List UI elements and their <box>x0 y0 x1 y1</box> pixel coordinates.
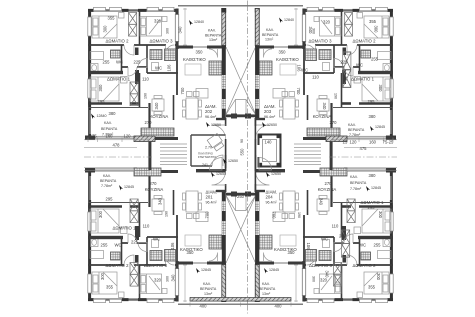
svg-text:96.4m²: 96.4m² <box>206 201 218 205</box>
svg-text:106: 106 <box>306 243 311 251</box>
svg-text:255: 255 <box>374 243 382 248</box>
section line extensions <box>246 1 248 314</box>
svg-text:ΔΩΜΑΤΙΟ 1: ΔΩΜΑΤΙΟ 1 <box>107 77 131 82</box>
svg-text:340: 340 <box>158 197 163 205</box>
svg-text:ΒΕΡΑΝΤΑ: ΒΕΡΑΝΤΑ <box>205 34 222 38</box>
svg-text:340: 340 <box>154 102 159 110</box>
svg-text:ΚΑΛ.: ΚΑΛ. <box>266 28 274 32</box>
svg-text:ΒΕΡΑΝΤΑ: ΒΕΡΑΝΤΑ <box>262 33 279 37</box>
svg-text:320: 320 <box>154 278 162 283</box>
svg-text:300: 300 <box>374 26 379 34</box>
svg-text:300: 300 <box>98 84 103 92</box>
svg-text:WC: WC <box>356 63 363 68</box>
svg-text:255: 255 <box>371 57 379 62</box>
apartment 201 bottom-left quadrant geometry (mirrored) <box>88 155 241 304</box>
svg-text:12650: 12650 <box>267 123 277 127</box>
corridor column BR <box>342 230 350 257</box>
wardrobe bedroom2 BR <box>334 263 342 287</box>
svg-text:300: 300 <box>378 211 383 219</box>
spot elevation 12650 apt202 <box>206 122 221 128</box>
svg-text:12840: 12840 <box>97 114 107 118</box>
svg-text:12650: 12650 <box>271 172 281 176</box>
bottom dimension lines <box>190 303 291 307</box>
svg-text:160: 160 <box>106 134 114 139</box>
svg-text:ΚΑΛ.: ΚΑΛ. <box>104 121 112 125</box>
svg-text:355: 355 <box>108 16 116 21</box>
svg-text:190: 190 <box>165 211 169 217</box>
svg-text:ΚΑΘΙΣΤΙΚΟ: ΚΑΘΙΣΤΙΚΟ <box>276 57 299 62</box>
svg-text:12650: 12650 <box>228 159 238 163</box>
svg-text:475: 475 <box>360 146 368 151</box>
svg-text:225: 225 <box>131 240 139 245</box>
svg-text:110: 110 <box>142 77 149 82</box>
svg-text:400: 400 <box>200 304 208 309</box>
svg-text:203: 203 <box>264 109 272 114</box>
svg-text:320: 320 <box>154 19 162 24</box>
svg-text:7.78m²: 7.78m² <box>101 184 113 188</box>
svg-text:270: 270 <box>145 120 153 125</box>
svg-text:340: 340 <box>178 26 183 34</box>
mid band stripes (side steps) left <box>160 144 187 165</box>
wardrobe bedroom1 BR <box>347 199 355 223</box>
svg-text:96.4m²: 96.4m² <box>205 115 217 119</box>
svg-text:ΔΩΜΑΤΙΟ 2: ΔΩΜΑΤΙΟ 2 <box>106 263 130 268</box>
apartment 202 top-left quadrant geometry <box>88 6 241 155</box>
svg-text:ΚΑΛ.: ΚΑΛ. <box>262 282 270 286</box>
svg-text:ΚΑΛ.: ΚΑΛ. <box>348 123 356 127</box>
svg-text:WC: WC <box>321 237 328 242</box>
svg-text:12845: 12845 <box>371 186 381 190</box>
svg-text:700: 700 <box>272 212 277 220</box>
svg-text:255: 255 <box>101 243 109 248</box>
svg-text:ΔΩΜΑΤΙΟ 3: ΔΩΜΑΤΙΟ 3 <box>309 39 333 44</box>
svg-text:ΒΕΡΑΝΤΑ: ΒΕΡΑΝΤΑ <box>101 127 118 131</box>
svg-text:ΔΩΜΑΤΙΟ 2: ΔΩΜΑΤΙΟ 2 <box>353 263 377 268</box>
mid band stripes (side steps) right <box>294 144 321 165</box>
svg-text:270: 270 <box>150 181 158 186</box>
svg-text:250: 250 <box>237 194 245 199</box>
svg-text:190: 190 <box>144 93 148 99</box>
svg-text:ΒΕΡΑΝΤΑ: ΒΕΡΑΝΤΑ <box>100 179 117 183</box>
apartment 204 bottom-right quadrant geometry (mirrored) <box>241 155 394 304</box>
svg-text:190: 190 <box>297 212 301 218</box>
wardrobe bedroom2 BL <box>130 263 138 287</box>
svg-text:110: 110 <box>332 224 339 229</box>
svg-text:270: 270 <box>330 120 338 125</box>
svg-text:ΒΕΡΑΝΤΑ: ΒΕΡΑΝΤΑ <box>259 287 276 291</box>
svg-text:12845: 12845 <box>269 268 279 272</box>
svg-text:7.78m²: 7.78m² <box>349 133 361 137</box>
svg-text:300: 300 <box>312 276 316 282</box>
svg-text:106: 106 <box>297 65 302 73</box>
svg-text:350: 350 <box>196 50 204 55</box>
svg-text:7.78m²: 7.78m² <box>350 187 362 191</box>
svg-text:204: 204 <box>266 195 274 200</box>
svg-text:12840: 12840 <box>194 20 204 24</box>
svg-text:12650: 12650 <box>216 172 226 176</box>
svg-text:106: 106 <box>167 64 172 72</box>
svg-text:WC: WC <box>116 60 123 65</box>
svg-text:ΔΩΜΑΤΙΟ 3: ΔΩΜΑΤΙΟ 3 <box>309 263 333 268</box>
svg-text:255: 255 <box>103 60 111 65</box>
svg-text:225: 225 <box>134 60 142 65</box>
svg-text:ΔΩΜΑΤΙΟ 1: ΔΩΜΑΤΙΟ 1 <box>351 77 375 82</box>
svg-text:160: 160 <box>369 140 377 145</box>
svg-text:25: 25 <box>343 140 348 145</box>
svg-text:380: 380 <box>369 114 377 119</box>
core middle: laundry, elevator, kitchen counters <box>85 128 396 176</box>
svg-text:295: 295 <box>368 99 376 104</box>
svg-text:75-25: 75-25 <box>383 140 394 145</box>
svg-text:700: 700 <box>296 88 301 96</box>
stair core lower half (mirrored) <box>222 155 259 305</box>
svg-text:ΚΟΥΖΙΝΑ: ΚΟΥΖΙΝΑ <box>318 187 337 192</box>
svg-text:380: 380 <box>369 173 377 178</box>
svg-text:ΒΕΡΑΝΤΑ: ΒΕΡΑΝΤΑ <box>350 181 367 185</box>
svg-text:-0.75: -0.75 <box>87 134 97 139</box>
wardrobe bedroom1 TL <box>130 82 138 106</box>
svg-text:ΔΩΜΑΤΙΟ 2: ΔΩΜΑΤΙΟ 2 <box>106 39 130 44</box>
svg-text:340: 340 <box>171 274 176 282</box>
svg-text:ΒΕΡΑΝΤΑ: ΒΕΡΑΝΤΑ <box>348 128 365 132</box>
spot elevation 12840 top-left veranda <box>189 20 204 26</box>
svg-text:350: 350 <box>279 50 287 55</box>
svg-text:WC: WC <box>359 243 366 248</box>
svg-text:241: 241 <box>202 163 208 167</box>
svg-text:350: 350 <box>187 250 195 255</box>
svg-text:12845: 12845 <box>375 125 385 129</box>
svg-text:300: 300 <box>98 210 103 218</box>
svg-text:12845: 12845 <box>201 268 211 272</box>
svg-text:225: 225 <box>341 60 349 65</box>
svg-text:ΔΩΜΑΤΙΟ 1: ΔΩΜΑΤΙΟ 1 <box>113 226 137 231</box>
svg-text:700: 700 <box>180 87 185 95</box>
middle dimension band right (mirror) <box>329 138 397 171</box>
svg-text:202: 202 <box>205 109 213 114</box>
svg-text:13m²: 13m² <box>265 38 274 42</box>
svg-text:320: 320 <box>323 20 331 25</box>
svg-text:ΚΑΛ.: ΚΑΛ. <box>103 174 111 178</box>
svg-text:350: 350 <box>288 250 296 255</box>
svg-text:300: 300 <box>312 28 316 34</box>
svg-text:110: 110 <box>312 75 319 80</box>
svg-text:WC: WC <box>155 66 162 71</box>
svg-text:340: 340 <box>322 103 327 111</box>
svg-text:WC: WC <box>115 243 122 248</box>
svg-text:12650: 12650 <box>211 123 221 127</box>
svg-text:295: 295 <box>106 197 114 202</box>
svg-text:300: 300 <box>376 273 381 281</box>
svg-text:ΚΑΘΙΣΤΙΚΟ: ΚΑΘΙΣΤΙΚΟ <box>183 57 206 62</box>
svg-text:13m²: 13m² <box>209 38 218 42</box>
wardrobe bedroom2 TL <box>129 13 137 37</box>
svg-text:ΚΑΛ.: ΚΑΛ. <box>208 29 216 33</box>
svg-text:12845: 12845 <box>124 185 134 189</box>
svg-text:ΚΟΥΖΙΝΑ: ΚΟΥΖΙΝΑ <box>145 187 164 192</box>
svg-text:ΣΤΕΓΝΩΤ/ΡΙΟ: ΣΤΕΓΝΩΤ/ΡΙΟ <box>198 155 217 159</box>
svg-text:300: 300 <box>166 28 170 34</box>
svg-text:ΚΟΥΖΙΝΑ: ΚΟΥΖΙΝΑ <box>150 114 169 119</box>
svg-text:270: 270 <box>325 181 333 186</box>
svg-text:110: 110 <box>143 224 150 229</box>
svg-text:300: 300 <box>103 25 108 33</box>
svg-text:ΔΩΜΑΤΙΟ 3: ΔΩΜΑΤΙΟ 3 <box>150 39 174 44</box>
stair core upper half <box>222 5 259 155</box>
svg-text:96.4m²: 96.4m² <box>266 201 278 205</box>
svg-text:550: 550 <box>240 148 245 156</box>
svg-text:355: 355 <box>106 285 114 290</box>
svg-text:2.70: 2.70 <box>205 146 212 150</box>
svg-text:320: 320 <box>320 278 328 283</box>
svg-text:340: 340 <box>319 198 324 206</box>
wardrobe bedroom1 TR (tall column) <box>343 52 351 87</box>
wardrobe bedroom1 BL <box>130 199 138 223</box>
svg-text:478: 478 <box>113 143 121 148</box>
bottom center railing hatched <box>190 298 291 302</box>
svg-text:355: 355 <box>368 285 376 290</box>
svg-text:ΚΑΛ.: ΚΑΛ. <box>350 175 358 179</box>
svg-text:12840: 12840 <box>284 18 294 22</box>
svg-text:106: 106 <box>170 242 175 250</box>
middle dimension band left <box>84 138 152 171</box>
svg-text:120: 120 <box>124 134 132 139</box>
svg-text:300: 300 <box>378 85 383 93</box>
svg-text:ΚΟΥΖΙΝΑ: ΚΟΥΖΙΝΑ <box>313 114 332 119</box>
svg-text:ΒΕΡΑΝΤΑ: ΒΕΡΑΝΤΑ <box>200 287 217 291</box>
svg-text:225: 225 <box>339 234 347 239</box>
svg-text:ΔΩΜΑΤΙΟ 3: ΔΩΜΑΤΙΟ 3 <box>144 263 168 268</box>
svg-text:300: 300 <box>100 272 105 280</box>
svg-text:96.4m²: 96.4m² <box>264 115 276 119</box>
svg-text:WC: WC <box>153 237 160 242</box>
svg-text:ΚΑΛ.: ΚΑΛ. <box>203 282 211 286</box>
svg-text:140: 140 <box>265 140 273 145</box>
wardrobe bedroom2 TR <box>344 13 352 37</box>
svg-text:400: 400 <box>275 304 283 309</box>
svg-text:ΔΩΜΑΤΙΟ 2: ΔΩΜΑΤΙΟ 2 <box>353 39 377 44</box>
svg-text:295: 295 <box>368 205 376 210</box>
svg-text:295: 295 <box>98 99 106 104</box>
svg-text:13m²: 13m² <box>204 292 213 296</box>
svg-text:201: 201 <box>206 195 214 200</box>
apartment 203 top-right quadrant geometry (mirrored) <box>241 6 394 155</box>
svg-text:190: 190 <box>334 93 338 99</box>
svg-text:380: 380 <box>109 111 117 116</box>
svg-text:13m²: 13m² <box>262 292 271 296</box>
svg-text:120: 120 <box>350 140 358 145</box>
svg-text:700: 700 <box>205 211 210 219</box>
svg-text:340: 340 <box>325 271 330 279</box>
svg-text:300: 300 <box>166 276 170 282</box>
svg-text:355: 355 <box>369 19 377 24</box>
spot 12840 veranda2 <box>91 114 107 120</box>
svg-text:90: 90 <box>240 139 244 143</box>
